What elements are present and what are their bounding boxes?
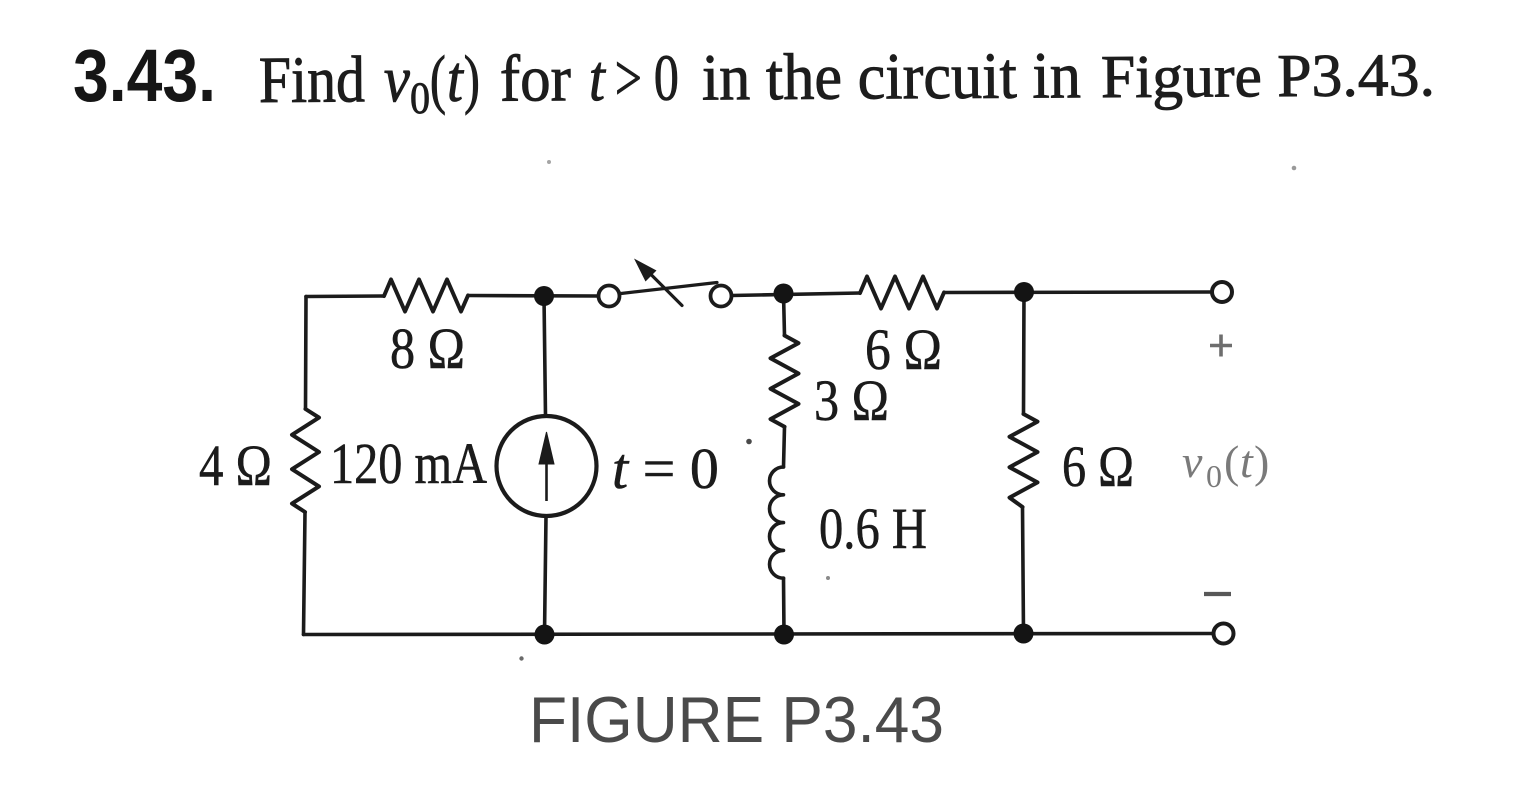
minus sign (1204, 592, 1231, 596)
svg-text:in the circuit in: in the circuit in (702, 39, 1081, 114)
scan speck (746, 439, 752, 445)
wire 3ohm to inductor (784, 427, 785, 467)
wire left vertical bottom (304, 512, 306, 635)
svg-text:3.43.: 3.43. (73, 34, 216, 117)
svg-text:t: t (589, 42, 607, 115)
wire 3ohm branch top (784, 294, 785, 336)
plus sign (1210, 335, 1232, 357)
svg-text:for: for (500, 42, 571, 115)
svg-text:6 Ω: 6 Ω (1062, 434, 1134, 499)
wire current source top (544, 296, 546, 416)
node dot top C (1014, 282, 1034, 302)
inductor L 0.6H (770, 467, 784, 578)
svg-text:4 Ω: 4 Ω (199, 433, 272, 498)
resistor R 3ohm (771, 336, 799, 427)
node dot top A (534, 286, 554, 306)
current source arrow (539, 432, 554, 501)
svg-text:t = 0: t = 0 (612, 436, 719, 501)
svg-text:Find: Find (259, 43, 365, 117)
output terminal bottom (1214, 624, 1234, 644)
scan speck (1292, 166, 1297, 171)
wire node B to node C (944, 290, 1212, 294)
resistor R 8ohm (384, 280, 468, 312)
switch contact circle right (711, 286, 732, 307)
svg-text:0: 0 (410, 73, 430, 123)
switch blade (621, 283, 717, 294)
node dot bottom A (535, 625, 555, 645)
wire current source bottom (545, 516, 547, 635)
scan speck (826, 576, 830, 580)
svg-text:0: 0 (1206, 458, 1222, 494)
svg-text:): ) (464, 43, 480, 116)
label v0(t) (1182, 436, 1269, 494)
scan speck (519, 656, 523, 660)
switch arrow shaft (650, 274, 682, 306)
node dot bottom C (1014, 624, 1034, 644)
wire switch to node B (732, 293, 861, 296)
svg-text:FIGURE P3.43: FIGURE P3.43 (529, 683, 944, 756)
svg-text:t: t (1240, 436, 1254, 487)
svg-text:(: ( (430, 43, 446, 116)
resistor R 4ohm (292, 409, 319, 512)
problem title text (259, 37, 1435, 124)
resistor R 6ohm right (1010, 414, 1038, 507)
svg-text:8 Ω: 8 Ω (390, 316, 465, 381)
svg-text:>: > (615, 42, 642, 115)
node dot top B (774, 284, 794, 304)
svg-text:120 mA: 120 mA (330, 431, 487, 496)
switch arrow head (634, 259, 657, 282)
wire inductor to bottom (782, 578, 786, 634)
svg-text:0.6 H: 0.6 H (819, 496, 927, 561)
scan speck (547, 160, 551, 164)
wire bottom (304, 634, 1214, 635)
svg-text:0: 0 (654, 42, 679, 115)
svg-text:Figure P3.43.: Figure P3.43. (1101, 42, 1435, 111)
svg-text:t: t (447, 43, 465, 116)
wire 6ohm right branch bottom (1023, 507, 1024, 634)
svg-text:(: ( (1224, 436, 1239, 487)
svg-text:): ) (1254, 436, 1269, 487)
node dot bottom B (774, 625, 794, 645)
switch contact circle left (599, 286, 620, 307)
resistor R 6ohm top (860, 277, 944, 309)
svg-text:3 Ω: 3 Ω (814, 368, 889, 433)
current source circle (497, 416, 597, 516)
svg-text:v: v (1182, 436, 1203, 487)
wire 6ohm right branch top (1022, 292, 1026, 414)
output terminal top (1212, 282, 1232, 302)
svg-text:v: v (384, 43, 411, 116)
wire left vertical top (304, 297, 308, 410)
wire top middle to switch (468, 294, 599, 298)
wire top-left horizontal (306, 294, 384, 298)
